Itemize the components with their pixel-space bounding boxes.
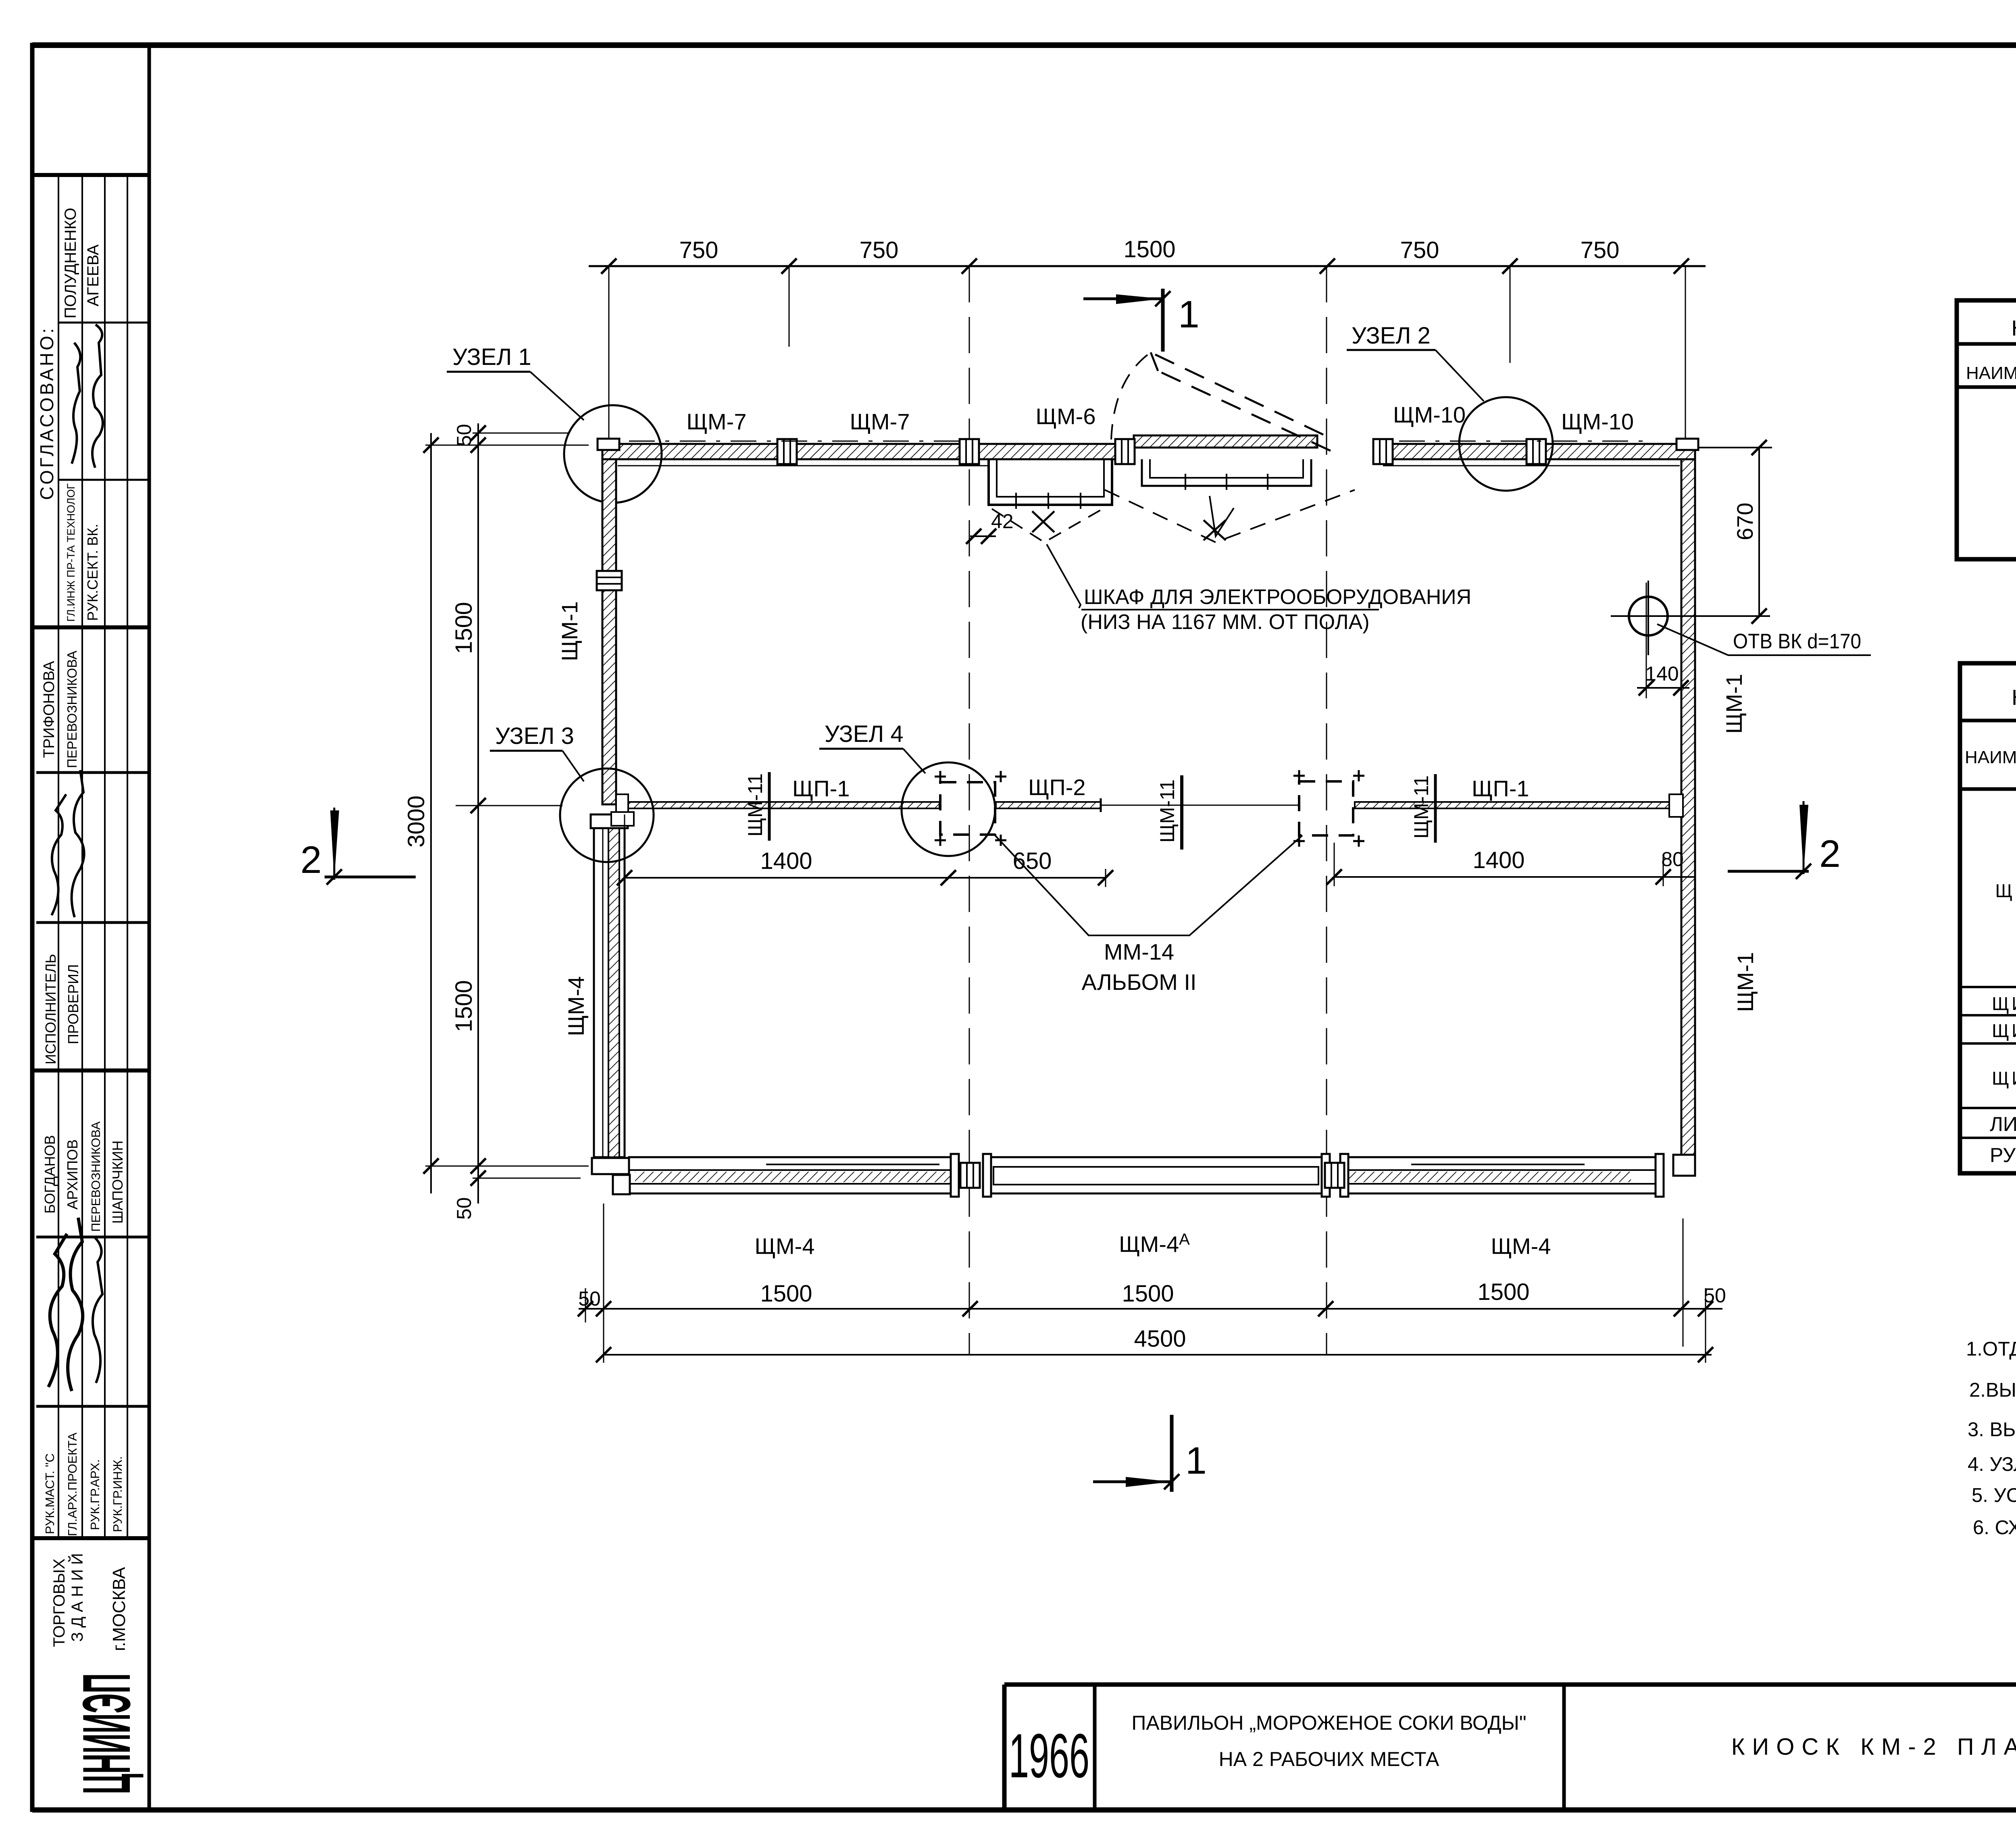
svg-text:3000: 3000 [403, 796, 429, 848]
niche bottom ticks [1015, 493, 1017, 509]
bottom border [32, 1808, 2016, 1813]
svg-text:ПРОВЕРИЛ: ПРОВЕРИЛ [65, 964, 81, 1044]
window panel ЩМ-4 right [1343, 1157, 1661, 1193]
svg-text:1500: 1500 [1477, 1279, 1529, 1305]
svg-text:1500: 1500 [760, 1281, 812, 1307]
svg-text:З Д А Н И Й: З Д А Н И Й [68, 1553, 86, 1642]
svg-text:КИОСК КМ-2 ПЛАН: КИОСК КМ-2 ПЛАН [1731, 1734, 2016, 1760]
svg-text:ГЛ.ИНЖ ПР-ТА ТЕХНОЛОГ: ГЛ.ИНЖ ПР-ТА ТЕХНОЛОГ [65, 483, 77, 622]
label ЩМ-11 rotated (mid) [1156, 775, 1182, 850]
wall joint block [1373, 439, 1393, 464]
wall band ЩМ-10 ЩМ-10 [1383, 444, 1695, 459]
X mark [1032, 511, 1054, 532]
svg-text:ПЕРЕВОЗНИКОВА: ПЕРЕВОЗНИКОВА [89, 1121, 103, 1232]
svg-text:АЛЬБОМ II: АЛЬБОМ II [1081, 969, 1196, 995]
bottom wall corner left [592, 1158, 629, 1174]
node circle УЗЕЛ 3 [560, 768, 654, 862]
svg-text:АГЕЕВА: АГЕЕВА [84, 244, 102, 306]
svg-text:5. УСТАНОВКУ ЩИТА ПОЛА ЩМ: 5. УСТАНОВКУ ЩИТА ПОЛА ЩМ-11 ВЫПОЛНЯТЬ П… [1972, 1485, 2016, 1506]
svg-text:ММ-14: ММ-14 [1104, 939, 1174, 964]
wall inner face line left segment [618, 465, 989, 466]
signature [72, 770, 84, 917]
counter shelf under door opening [1142, 459, 1311, 486]
wall joint block [960, 439, 979, 464]
bottom wall corner right [1673, 1155, 1695, 1176]
cabinet callout leader [1047, 544, 1081, 608]
svg-text:50: 50 [578, 1287, 601, 1310]
svg-text:УЗЕЛ 1: УЗЕЛ 1 [452, 344, 531, 370]
svg-text:750: 750 [1400, 237, 1439, 263]
svg-text:650: 650 [1013, 848, 1052, 874]
window panel ЩМ-4 left [629, 1157, 956, 1193]
wall joint block [1115, 439, 1135, 464]
svg-text:ГЛ.АРХ.ПРОЕКТА: ГЛ.АРХ.ПРОЕКТА [65, 1433, 79, 1536]
svg-text:1400: 1400 [1472, 847, 1524, 873]
svg-text:АРХИПОВ: АРХИПОВ [64, 1139, 81, 1210]
signature [93, 1238, 102, 1383]
stamp B bottom line [34, 1068, 149, 1072]
node circle УЗЕЛ 4 [902, 762, 995, 856]
signature [68, 1218, 83, 1391]
svg-text:50: 50 [1704, 1284, 1726, 1307]
svg-text:ЩМ-7: ЩМ-7 [687, 409, 747, 434]
svg-text:ПЕРЕВОЗНИКОВА: ПЕРЕВОЗНИКОВА [65, 651, 79, 768]
svg-text:ТРИФОНОВА: ТРИФОНОВА [41, 661, 58, 758]
left wall lower end caps [591, 814, 628, 828]
stamp strip right line / drawing area left border [148, 45, 151, 1810]
bottom wall joint [1325, 1163, 1344, 1188]
svg-text:1500: 1500 [1122, 1281, 1174, 1307]
svg-text:1500: 1500 [451, 980, 477, 1032]
TABLES [1957, 300, 2016, 1173]
stamp B column lines [58, 627, 59, 1070]
dashed post at УЗЕЛ 4 [940, 782, 995, 835]
corner block top-left [598, 439, 619, 450]
svg-text:ЩМ-10: ЩМ-10 [1393, 402, 1466, 427]
stamp C column lines [58, 1070, 59, 1538]
svg-text:670: 670 [1732, 503, 1758, 540]
stamp C inner row lines [36, 1236, 149, 1239]
svg-text:РУБЕРОИД (3,2×4,7)2: РУБЕРОИД (3,2×4,7)2 [1990, 1144, 2016, 1166]
svg-text:ЩП-1: ЩП-1 [1472, 776, 1529, 801]
dim line 50+1500+1500+1500+50 [579, 1308, 1722, 1310]
svg-text:ЩМ-4: ЩМ-4 [755, 1233, 815, 1259]
svg-text:ЩИТЫ ПЕРЕГОРОДОК: ЩИТЫ ПЕРЕГОРОДОК [1992, 1068, 2016, 1089]
top dimension line 750+750+1500+750+750 [589, 265, 1706, 267]
X mark [1204, 520, 1226, 540]
svg-text:1.ОТДЕЛКУ КИОСКА СМ. ПОЯСНИ: 1.ОТДЕЛКУ КИОСКА СМ. ПОЯСНИТЕЛЬНУЮ ЗАПИС… [1966, 1338, 2016, 1360]
bottom extension lines [603, 1204, 604, 1363]
dim 670 right [1758, 448, 1760, 616]
partition joint at left wall [616, 794, 628, 817]
niche for electrical cabinet under wall [989, 459, 1112, 505]
svg-text:ЩП-2: ЩП-2 [1028, 775, 1086, 800]
partition dim line left 1400 650 [625, 877, 1106, 879]
svg-text:РУК.ГР.ИНЖ.: РУК.ГР.ИНЖ. [110, 1456, 125, 1532]
svg-text:ЩМ-11: ЩМ-11 [1410, 775, 1433, 839]
svg-text:ЩМ-1: ЩМ-1 [1721, 674, 1747, 734]
signature [92, 325, 103, 468]
svg-text:140: 140 [1645, 662, 1679, 685]
svg-text:НА 2 РАБОЧИХ МЕСТА: НА 2 РАБОЧИХ МЕСТА [1219, 1748, 1439, 1770]
signature [52, 794, 66, 915]
callout ММ-14 АЛЬБОМ II [995, 835, 1302, 935]
svg-text:ЩМ-10: ЩМ-10 [1561, 409, 1634, 434]
svg-text:ЦНИИЭП: ЦНИИЭП [69, 1673, 144, 1794]
left wall joint block [597, 571, 622, 590]
extension lines left [425, 445, 589, 446]
window panel ЩМ-4А middle [985, 1157, 1327, 1193]
signature [48, 1234, 67, 1387]
top border [32, 42, 2016, 48]
svg-text:РУК.СЕКТ. ВК.: РУК.СЕКТ. ВК. [84, 524, 101, 621]
svg-text:2: 2 [300, 839, 322, 881]
section mark 2 left [325, 876, 416, 879]
wall band ЩМ-7 ЩМ-7 ЩМ-6 [602, 444, 1131, 459]
svg-text:50: 50 [453, 1197, 475, 1220]
svg-text:г.МОСКВА: г.МОСКВА [109, 1567, 129, 1651]
svg-text:НАИМЕНОВАНИЯ ЭЛЕМЕНТОВ: НАИМЕНОВАНИЯ ЭЛЕМЕНТОВ [1965, 748, 2016, 767]
outer dim line 3000 [430, 433, 432, 1193]
svg-text:ШКАФ ДЛЯ ЭЛЕКТРООБОРУДОВАНИЯ: ШКАФ ДЛЯ ЭЛЕКТРООБОРУДОВАНИЯ [1084, 585, 1471, 609]
TITLE BLOCK [1004, 1655, 2016, 1810]
svg-text:УЗЕЛ 3: УЗЕЛ 3 [495, 723, 574, 749]
stamp A top line [34, 173, 149, 177]
total dim line 4500 [604, 1354, 1712, 1356]
block top border [1004, 1683, 2016, 1687]
svg-text:ТОРГОВЫХ: ТОРГОВЫХ [50, 1558, 68, 1647]
svg-text:ЩМ-11: ЩМ-11 [1156, 779, 1179, 843]
svg-text:ШАПОЧКИН: ШАПОЧКИН [109, 1140, 126, 1224]
svg-text:1500: 1500 [451, 602, 477, 654]
svg-text:ЩМ-7: ЩМ-7 [850, 409, 910, 434]
stamp C bottom line [34, 1536, 149, 1540]
svg-text:НАИМЕНОВАНИЯ ЭЛЕМЕНТОВ: НАИМЕНОВАНИЯ ЭЛЕМЕНТОВ [1966, 363, 2016, 383]
LEFT WALL lower ЩМ-4 (window) [594, 827, 625, 1157]
svg-text:4. УЗЛЫ 1,2,3,4 СМ. ЛИСТ АС-: 4. УЗЛЫ 1,2,3,4 СМ. ЛИСТ АС-12 . [1968, 1454, 2016, 1475]
shelf open-swing dashed V [1105, 490, 1355, 542]
left outer border of stamp strip [30, 43, 35, 1812]
svg-text:ЩИТ ПОЛА: ЩИТ ПОЛА [1992, 1020, 2016, 1041]
wall inner face line right segment [1383, 465, 1680, 466]
svg-text:750: 750 [679, 237, 719, 263]
svg-text:750: 750 [860, 237, 899, 263]
shelf ticks [1185, 474, 1186, 490]
svg-text:2.ВЫБОРКУ МОНТАЖНЫХ МАРОК: 2.ВЫБОРКУ МОНТАЖНЫХ МАРОК И МЕТИЗОВ СМ. … [1969, 1379, 2016, 1401]
svg-text:НАБОР СТАВНЕЙ ДЛЯ КИОСКА: НАБОР СТАВНЕЙ ДЛЯ КИОСКА [2012, 316, 2016, 340]
partition band ЩП-1 right [1355, 802, 1681, 808]
stamp A row lines [58, 322, 149, 324]
wall joint block [1527, 439, 1546, 464]
stamp A column lines [58, 175, 59, 627]
top dim extension lines [608, 266, 610, 488]
partition dim line right 1400 80 [1334, 876, 1695, 878]
svg-text:НАБОР ЭЛЕМЕНТОВ КИОСКА: НАБОР ЭЛЕМЕНТОВ КИОСКА [2012, 685, 2016, 710]
svg-text:СОГЛАСОВАНО:: СОГЛАСОВАНО: [36, 326, 57, 500]
svg-text:1: 1 [1185, 1439, 1207, 1482]
LEFT STAMP STRIP [34, 175, 149, 1794]
cell borders [1002, 1685, 1007, 1810]
section mark 1 bottom [1093, 1481, 1172, 1483]
svg-text:(НИЗ НА 1167 ММ. ОТ ПОЛА): (НИЗ НА 1167 ММ. ОТ ПОЛА) [1081, 610, 1370, 634]
partition band ЩП-1 left [619, 802, 939, 808]
door leaf panel (hatched) above opening [1134, 435, 1317, 448]
fold mark [1210, 496, 1234, 536]
svg-text:ЩИТ ПОТОЛКА: ЩИТ ПОТОЛКА [1992, 993, 2016, 1014]
inner dim line 50+1500+1500+50 [477, 423, 479, 1204]
svg-text:80: 80 [1661, 848, 1684, 870]
node circle УЗЕЛ 2 [1459, 397, 1553, 491]
svg-text:ЩМ-4: ЩМ-4 [1491, 1233, 1551, 1259]
TABLE 1: НАБОР СТАВНЕЙ ДЛЯ КИОСКА [1957, 300, 2016, 559]
door swing arc dashed [1111, 355, 1148, 439]
partition joint at right wall [1669, 794, 1683, 817]
signature [72, 343, 80, 464]
section mark 2 right [1728, 870, 1809, 873]
label ЩМ-11 rotated [744, 772, 769, 841]
bottom wall joint [960, 1163, 980, 1188]
svg-text:1966: 1966 [1009, 1721, 1089, 1791]
NOTES [1966, 1293, 2016, 1539]
svg-text:1: 1 [1178, 293, 1200, 336]
partition band ЩП-2 [996, 802, 1101, 808]
svg-text:ЩИТЫ СТЕНОВЫЕ: ЩИТЫ СТЕНОВЫЕ [1995, 880, 2016, 901]
axis dash line above wall [629, 441, 969, 442]
svg-text:РУК.ГР.АРХ.: РУК.ГР.АРХ. [88, 1459, 102, 1530]
label ЩМ-11 rotated (right) [1410, 774, 1435, 843]
dashed post right [1299, 781, 1353, 835]
svg-text:1500: 1500 [1123, 236, 1175, 262]
svg-text:ЩМ-6: ЩМ-6 [1036, 404, 1096, 429]
svg-text:БОГДАНОВ: БОГДАНОВ [42, 1135, 58, 1214]
svg-text:ИСПОЛНИТЕЛЬ: ИСПОЛНИТЕЛЬ [42, 954, 59, 1064]
svg-text:ЛИНОЛЕУМ (3,0×4,5): ЛИНОЛЕУМ (3,0×4,5) [1990, 1113, 2016, 1135]
RIGHT WALL ЩМ-1 [1681, 459, 1695, 1163]
PLAN [300, 236, 1871, 1492]
long grid line through plan at 2404 [969, 266, 970, 1356]
svg-text:ЩМ-4: ЩМ-4 [563, 976, 589, 1036]
hole ВК circle [1629, 597, 1668, 635]
door opening leaf dashed (open position) [1151, 352, 1323, 435]
TABLE 2: НАБОР ЭЛЕМЕНТОВ КИОСКА [1960, 663, 2016, 1173]
svg-text:ЩМ-1: ЩМ-1 [557, 601, 582, 661]
stamp A bottom line [34, 625, 149, 629]
svg-text:ЩМ-1: ЩМ-1 [1733, 952, 1758, 1012]
svg-text:750: 750 [1581, 237, 1620, 263]
svg-text:УЗЕЛ 2: УЗЕЛ 2 [1352, 323, 1431, 349]
long grid line through plan at 3298 [1326, 266, 1327, 1356]
stamp B inner row lines [36, 771, 149, 774]
svg-text:2: 2 [1819, 833, 1841, 875]
wall joint block [777, 439, 797, 464]
svg-text:ОТВ ВК d=170: ОТВ ВК d=170 [1733, 630, 1861, 653]
svg-text:6. СХЕМЫ НАВЕСКИ СТАВНЕЙ: 6. СХЕМЫ НАВЕСКИ СТАВНЕЙ СМ. ЛИСТ АС-10 … [1973, 1516, 2016, 1539]
corner block top-right [1677, 439, 1698, 450]
svg-text:50: 50 [453, 424, 475, 446]
svg-text:3. ВЫБОРКУ КРОНШТЕЙНОВ КС-1: 3. ВЫБОРКУ КРОНШТЕЙНОВ КС-1 СМ. ЛИСТ АС-… [1968, 1418, 2016, 1441]
node circle УЗЕЛ 1 [564, 405, 662, 503]
LEFT WALL upper ЩМ-1 [602, 459, 616, 804]
svg-text:1400: 1400 [760, 848, 812, 874]
section mark 1 top [1083, 298, 1163, 300]
svg-text:ПОЛУДНЕНКО: ПОЛУДНЕНКО [62, 208, 79, 319]
svg-text:ПАВИЛЬОН „МОРОЖЕНОЕ СОКИ ВОДЫ": ПАВИЛЬОН „МОРОЖЕНОЕ СОКИ ВОДЫ" [1131, 1712, 1526, 1734]
svg-text:ЩП-1: ЩП-1 [792, 776, 850, 801]
svg-text:ЩМ-11: ЩМ-11 [744, 773, 766, 837]
partition axis line (opening) [1101, 805, 1299, 806]
svg-text:УЗЕЛ 4: УЗЕЛ 4 [825, 721, 904, 747]
niche open-swing dashed V [992, 509, 1103, 542]
svg-text:РУК.МАСТ. ''С: РУК.МАСТ. ''С [43, 1454, 57, 1535]
svg-text:4500: 4500 [1134, 1326, 1186, 1352]
group rows full width [1960, 986, 2016, 988]
